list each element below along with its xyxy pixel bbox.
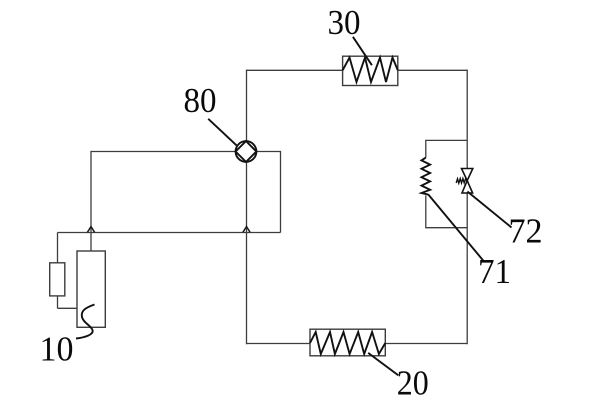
expansion valve 72 upper triangle <box>462 169 473 181</box>
svg-text:72: 72 <box>509 211 543 250</box>
wire: left vertical from valve 80 down to bottom corner <box>246 162 248 344</box>
heat exchanger 30 zigzag <box>343 58 398 83</box>
wire: valve 80 east port horizontal <box>256 151 280 153</box>
wire: bottom horizontal right of box 20 <box>385 343 467 345</box>
wire: right vertical lower (loop right side below valve 72) <box>466 193 468 344</box>
wire: vertical down from mid horizontal to small rect <box>57 233 59 263</box>
wire: middle horizontal line y=232 <box>58 232 281 234</box>
compressor 10 large rectangle <box>77 251 105 327</box>
wire: vertical from east port down to mid horizontal <box>280 151 282 233</box>
leader line to label 30 <box>353 37 372 65</box>
wire: right vertical upper (loop right side above valve 72) <box>466 70 468 169</box>
svg-text:10: 10 <box>40 329 74 368</box>
wire: horizontal connecting to component 10 left edge <box>58 307 78 309</box>
flow arrow on vertical at x=91 <box>87 227 94 233</box>
leader line to label 72 <box>467 192 511 228</box>
svg-text:71: 71 <box>478 252 511 291</box>
wire: right branch top horizontal to resistor 71 <box>426 139 467 141</box>
leader line to label 20 <box>368 353 398 376</box>
accumulator small rectangle of component 10 <box>50 263 65 296</box>
four-way valve 80 inner diamond <box>236 141 257 162</box>
capillary resistor 71 zigzag <box>422 158 431 195</box>
svg-text:30: 30 <box>328 3 361 42</box>
wire: bottom horizontal left of box 20 <box>247 343 311 345</box>
wire: vertical from west wire down to component 10 rect <box>90 151 92 251</box>
wire: right branch bottom horizontal <box>426 227 467 229</box>
expansion valve 72 spring <box>456 179 467 184</box>
wire: horizontal from valve 80 west port to left branch <box>91 151 236 153</box>
four-way valve 80 circle <box>236 141 257 162</box>
svg-text:20: 20 <box>397 364 429 400</box>
wire: left vertical from top corner down to valve 80 <box>246 70 248 142</box>
flow arrow on vertical at x=246.5 <box>243 227 250 233</box>
wire: right branch left vertical below resistor 71 <box>425 195 427 228</box>
wire: top horizontal right of box 30 <box>398 69 467 71</box>
leader line to label 80 <box>208 119 236 146</box>
expansion valve 72 lower triangle <box>462 181 473 193</box>
squiggle leader to label 10 <box>76 305 95 339</box>
wire: right branch left vertical above resistor 71 <box>425 140 427 158</box>
heat exchanger 30 box <box>343 56 398 85</box>
leader line to label 71 <box>428 194 484 261</box>
heat exchanger 20 zigzag <box>310 332 385 354</box>
wire: top horizontal left of box 30 <box>247 69 343 71</box>
heat exchanger 20 box <box>310 329 385 356</box>
svg-text:80: 80 <box>184 81 217 120</box>
wire: vertical below small rect <box>57 296 59 308</box>
